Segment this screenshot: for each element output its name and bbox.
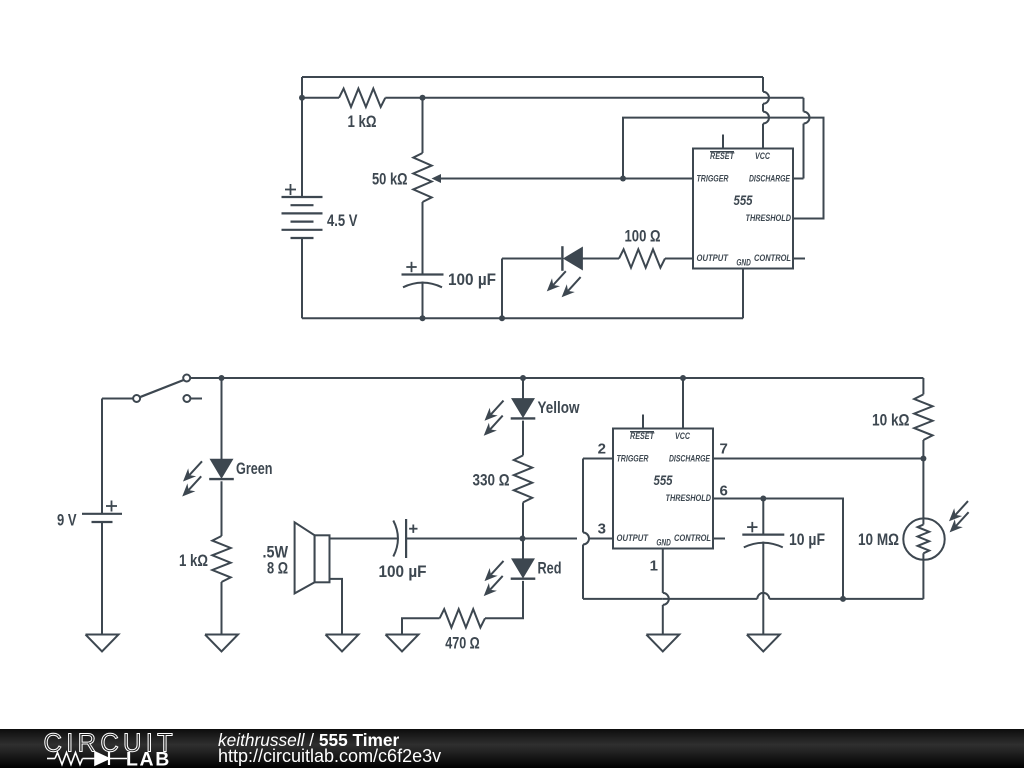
svg-text:6: 6	[720, 483, 728, 500]
svg-text:LAB: LAB	[126, 749, 171, 768]
svg-text:555: 555	[734, 193, 753, 208]
svg-text:RESET: RESET	[710, 151, 735, 161]
svg-text:THRESHOLD: THRESHOLD	[666, 493, 712, 503]
svg-text:Yellow: Yellow	[538, 399, 580, 417]
svg-text:2: 2	[598, 441, 606, 458]
svg-text:100 µF: 100 µF	[379, 563, 427, 581]
svg-text:DISCHARGE: DISCHARGE	[669, 454, 711, 464]
svg-text:1 kΩ: 1 kΩ	[348, 113, 377, 131]
svg-text:10 µF: 10 µF	[789, 531, 825, 549]
svg-text:GND: GND	[656, 538, 671, 548]
svg-text:10 MΩ: 10 MΩ	[858, 531, 899, 549]
svg-text:100 µF: 100 µF	[448, 271, 496, 289]
svg-text:555: 555	[654, 473, 673, 488]
svg-text:GND: GND	[736, 258, 751, 268]
svg-text:TRIGGER: TRIGGER	[617, 454, 650, 464]
svg-text:TRIGGER: TRIGGER	[697, 174, 730, 184]
svg-text:Red: Red	[538, 559, 562, 577]
svg-text:DISCHARGE: DISCHARGE	[749, 174, 791, 184]
svg-text:470 Ω: 470 Ω	[445, 635, 480, 653]
svg-text:100 Ω: 100 Ω	[625, 228, 661, 246]
svg-text:3: 3	[598, 521, 606, 538]
svg-text:CONTROL: CONTROL	[754, 253, 791, 263]
svg-text:330 Ω: 330 Ω	[473, 472, 510, 490]
svg-text:1 kΩ: 1 kΩ	[179, 552, 208, 570]
svg-text:1: 1	[650, 558, 658, 575]
svg-text:10 kΩ: 10 kΩ	[872, 412, 910, 430]
svg-text:OUTPUT: OUTPUT	[617, 533, 649, 543]
svg-text:VCC: VCC	[755, 151, 771, 161]
svg-text:OUTPUT: OUTPUT	[697, 253, 729, 263]
svg-text:8 Ω: 8 Ω	[267, 560, 288, 578]
svg-text:RESET: RESET	[630, 431, 655, 441]
svg-text:Green: Green	[236, 460, 273, 478]
svg-text:50 kΩ: 50 kΩ	[372, 171, 408, 189]
svg-text:9 V: 9 V	[57, 512, 77, 530]
svg-text:THRESHOLD: THRESHOLD	[746, 213, 792, 223]
svg-text:4.5 V: 4.5 V	[327, 212, 358, 230]
svg-text:7: 7	[720, 441, 728, 458]
svg-text:CONTROL: CONTROL	[674, 533, 711, 543]
svg-text:VCC: VCC	[675, 431, 691, 441]
